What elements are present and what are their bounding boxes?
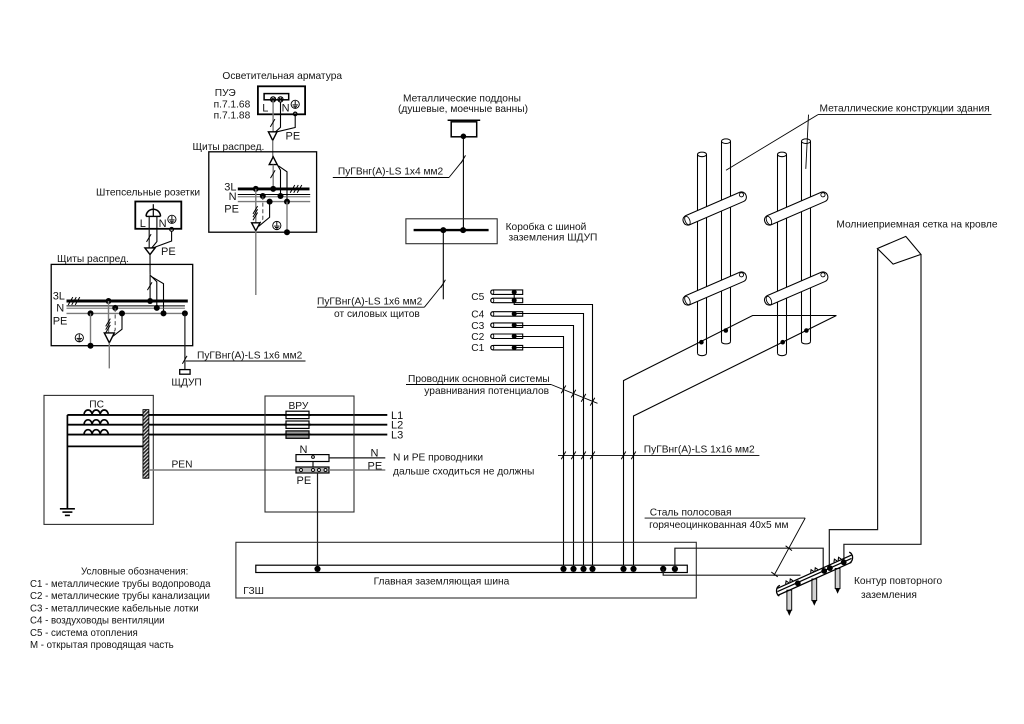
3-phase marks /// bbox=[290, 185, 302, 193]
svg-text:PE: PE bbox=[297, 475, 312, 487]
svg-text:Щиты распред.: Щиты распред. bbox=[57, 254, 129, 265]
bonding dots on pipes bbox=[699, 328, 809, 344]
PE bus bbox=[296, 467, 329, 473]
enclosure earth symbol bbox=[273, 221, 281, 229]
PE line out bbox=[329, 469, 385, 471]
horizontal pipe upper-left bbox=[682, 190, 748, 226]
conductor tick bbox=[271, 170, 276, 178]
svg-text:заземления: заземления bbox=[861, 590, 917, 601]
junction dots bbox=[440, 227, 446, 233]
svg-text:Металлические поддоны: Металлические поддоны bbox=[403, 93, 521, 104]
tick on PE wire bbox=[182, 356, 187, 364]
cable down to board bbox=[149, 255, 151, 275]
svg-text:С1 - металлические трубы водоп: С1 - металлические трубы водопровода bbox=[30, 579, 211, 590]
protective earth terminal symbol of EL1 bbox=[291, 100, 299, 108]
ground rod 3 bbox=[835, 569, 840, 594]
steel strip (3 edges) bbox=[778, 555, 852, 595]
horizontal pipe lower-left bbox=[682, 270, 748, 306]
svg-text:Сталь полосовая: Сталь полосовая bbox=[650, 508, 732, 519]
svg-text:Коробка с шиной: Коробка с шиной bbox=[506, 221, 587, 233]
terminal N of EL1 bbox=[278, 97, 283, 102]
PE stud terminal bbox=[293, 112, 297, 116]
luminaire EL1 (Осветительная арматура) bbox=[214, 71, 343, 122]
horizontal pipe upper-right bbox=[763, 190, 829, 226]
wire N branch bbox=[277, 165, 280, 196]
wire to re-grounding loop (upper) bbox=[675, 548, 823, 570]
tick bbox=[441, 280, 446, 288]
svg-text:3L: 3L bbox=[53, 290, 65, 302]
leader to pipes pair 1 bbox=[726, 115, 818, 171]
main switchboard ВРУ bbox=[265, 396, 354, 512]
legend (Условные обозначения) bbox=[30, 567, 211, 651]
wire N bbox=[152, 216, 157, 248]
building metal structures (Металлические конструкции здания) bbox=[624, 104, 998, 568]
3-phase marks /// bbox=[68, 297, 80, 305]
pipe C3 bbox=[491, 323, 523, 328]
svg-text:С4 - воздуховоды вентиляции: С4 - воздуховоды вентиляции bbox=[30, 616, 165, 627]
bonding wire from C4 bbox=[514, 314, 583, 566]
pipe C4 bbox=[491, 312, 523, 317]
svg-text:М - открытая проводящая часть: М - открытая проводящая часть bbox=[30, 640, 174, 651]
bonding wire from C3 bbox=[514, 326, 573, 566]
svg-text:ЩДУП: ЩДУП bbox=[171, 378, 201, 389]
svg-text:ПуГВнг(А)-LS 1х6 мм2: ПуГВнг(А)-LS 1х6 мм2 bbox=[317, 296, 423, 307]
fuse L2 bbox=[286, 421, 309, 428]
svg-text:п.7.1.68: п.7.1.68 bbox=[214, 99, 251, 110]
bus 3L bbox=[67, 300, 188, 303]
cable head triangle (down) bbox=[252, 223, 260, 231]
connection dots on strip bbox=[795, 559, 847, 586]
conductor tick bbox=[147, 234, 152, 242]
svg-text:L: L bbox=[262, 103, 268, 115]
star point vertical bbox=[66, 415, 68, 509]
bond dot on enclosure bbox=[88, 343, 94, 349]
svg-text:С1: С1 bbox=[471, 343, 484, 354]
re-grounding loop (Контур повторного заземления) bbox=[645, 508, 943, 616]
PE bond wire to enclosure bbox=[286, 202, 288, 233]
lightning mesh down-conductor column bbox=[829, 236, 921, 567]
cable head triangle (down) bbox=[104, 333, 114, 343]
svg-text:Молниеприемная сетка на кровле: Молниеприемная сетка на кровле bbox=[836, 219, 997, 230]
PE bond wire left bbox=[90, 313, 92, 345]
svg-text:N: N bbox=[159, 218, 167, 230]
ground symbol bbox=[60, 509, 75, 516]
wire N branch bbox=[150, 275, 156, 308]
svg-text:ПуГВнг(А)-LS 1х6 мм2: ПуГВнг(А)-LS 1х6 мм2 bbox=[197, 351, 303, 362]
socket symbol (dome) bbox=[146, 209, 160, 216]
leader bbox=[424, 285, 442, 308]
bus N (double line) bbox=[238, 194, 310, 196]
svg-text:С5 - система отопления: С5 - система отопления bbox=[30, 628, 138, 639]
svg-text:Главная заземляющая шина: Главная заземляющая шина bbox=[374, 576, 510, 587]
wire L bbox=[148, 216, 150, 248]
svg-text:С5: С5 bbox=[471, 292, 484, 303]
N bus bbox=[284, 414, 311, 416]
terminal L of EL1 bbox=[271, 97, 276, 102]
outgoing PE wire bbox=[112, 313, 122, 337]
bus bar in box bbox=[414, 229, 489, 231]
wire PE bbox=[153, 231, 172, 248]
svg-text:С3 - металлические кабельные л: С3 - металлические кабельные лотки bbox=[30, 603, 199, 614]
ShDUP terminal box bbox=[180, 370, 190, 375]
svg-text:N: N bbox=[229, 191, 237, 203]
cable head triangle (down) bbox=[268, 132, 277, 141]
junction dots bbox=[253, 186, 290, 205]
vertical pipe 1 bbox=[698, 152, 707, 356]
svg-text:N: N bbox=[371, 447, 379, 459]
strip end cap left bbox=[777, 585, 780, 596]
line L2 bbox=[67, 424, 387, 426]
svg-text:N: N bbox=[56, 303, 64, 315]
conductor count tick bbox=[270, 119, 275, 127]
group ticks bbox=[253, 206, 258, 220]
svg-text:п.7.1.88: п.7.1.88 bbox=[214, 111, 251, 122]
svg-text:N и PE проводники: N и PE проводники bbox=[393, 452, 483, 463]
cable head triangle (down) bbox=[145, 248, 155, 255]
horizontal pipe lower-right bbox=[763, 270, 829, 306]
PEN conductor bbox=[149, 469, 296, 471]
PE stud terminal bbox=[170, 228, 174, 232]
svg-text:Контур повторного: Контур повторного bbox=[854, 576, 943, 587]
junction dots bbox=[88, 298, 188, 316]
tick bbox=[461, 155, 466, 163]
bus N (double line) bbox=[67, 305, 185, 307]
PE wire down to GZSH bbox=[317, 473, 319, 565]
N-PE link bbox=[312, 462, 314, 468]
busbar (hatched) bbox=[143, 410, 149, 479]
svg-text:PEN: PEN bbox=[172, 460, 193, 471]
cable stub down bbox=[108, 343, 110, 369]
svg-text:ПУЭ: ПУЭ bbox=[215, 88, 236, 99]
bonded services C1-C5 pipe symbols bbox=[406, 290, 759, 566]
svg-text:N: N bbox=[282, 103, 290, 115]
wire down from box bbox=[442, 230, 444, 299]
outgoing PE wire bbox=[259, 202, 270, 227]
svg-text:ПуГВнг(А)-LS 1x16 мм2: ПуГВнг(А)-LS 1x16 мм2 bbox=[644, 444, 755, 455]
svg-text:PE: PE bbox=[368, 461, 383, 473]
leader to pipes pair 2 bbox=[806, 115, 809, 169]
connection dots bbox=[512, 290, 517, 351]
svg-text:PE: PE bbox=[161, 246, 176, 258]
outgoing L wire bbox=[108, 301, 110, 333]
svg-text:ГЗШ: ГЗШ bbox=[243, 586, 264, 597]
pipe C5 upper bbox=[491, 290, 523, 295]
outgoing N wire (dashed) bbox=[257, 196, 263, 226]
node on tub bbox=[461, 134, 467, 140]
bonding wire from C5 bbox=[514, 300, 592, 565]
svg-text:PE: PE bbox=[224, 204, 239, 216]
vertical pipe 2 bbox=[722, 139, 731, 344]
svg-text:дальше сходиться не должны: дальше сходиться не должны bbox=[393, 467, 534, 478]
bus PE bbox=[67, 312, 187, 314]
pipe C1 bbox=[491, 345, 523, 350]
svg-text:Штепсельные розетки: Штепсельные розетки bbox=[96, 187, 200, 198]
svg-text:С3: С3 bbox=[471, 321, 484, 332]
outgoing N wire (dashed) bbox=[111, 308, 115, 336]
wire N from EL1 bbox=[276, 102, 281, 132]
bond dot bbox=[284, 229, 290, 235]
roof bonding wire 1 bbox=[624, 316, 837, 566]
svg-text:ВРУ: ВРУ bbox=[289, 401, 309, 412]
svg-text:С2 - металлические трубы канал: С2 - металлические трубы канализации bbox=[30, 591, 210, 602]
svg-text:Осветительная арматура: Осветительная арматура bbox=[222, 71, 342, 82]
svg-text:Металлические конструкции здан: Металлические конструкции здания bbox=[820, 104, 990, 115]
wire PE branch bbox=[151, 276, 163, 313]
svg-text:PE: PE bbox=[286, 131, 301, 143]
transformer winding L1 bbox=[84, 410, 108, 415]
wire tub to box bbox=[462, 136, 464, 230]
svg-text:С4: С4 bbox=[471, 310, 484, 321]
pipe C5 lower bbox=[491, 298, 523, 303]
earth symbol of socket bbox=[168, 215, 176, 223]
svg-text:заземления ШДУП: заземления ШДУП bbox=[509, 232, 598, 243]
conductor tick bbox=[147, 282, 152, 290]
earthing bus box (Коробка с шиной заземления ШДУП) bbox=[406, 219, 497, 244]
leader across bonding wires bbox=[551, 385, 598, 404]
fuse L3 bbox=[286, 431, 309, 438]
svg-text:PE: PE bbox=[53, 316, 68, 328]
svg-text:Условные обозначения:: Условные обозначения: bbox=[81, 567, 188, 578]
svg-text:ПуГВнг(А)-LS 1х4 мм2: ПуГВнг(А)-LS 1х4 мм2 bbox=[338, 166, 444, 177]
svg-text:С2: С2 bbox=[471, 332, 484, 343]
bus PE bbox=[238, 201, 310, 203]
bonding wire from C1 bbox=[514, 347, 563, 349]
PE wire to ShDUP box bbox=[184, 313, 186, 369]
bonding wire from C2 bbox=[514, 337, 563, 566]
substation ПС bbox=[44, 395, 153, 524]
wire L down to 3L bus bbox=[272, 165, 274, 189]
wire PE branch bbox=[278, 166, 287, 202]
ground rod 1 bbox=[787, 590, 792, 616]
leader bbox=[449, 161, 463, 178]
wire cable down to board bbox=[272, 140, 274, 157]
pipe C2 bbox=[491, 334, 523, 339]
N line out bbox=[329, 457, 385, 459]
svg-text:(душевые, моечные ванны): (душевые, моечные ванны) bbox=[398, 104, 528, 115]
svg-text:Проводник основной системы: Проводник основной системы bbox=[408, 374, 550, 385]
leader down to strip bbox=[774, 518, 805, 576]
svg-text:N: N bbox=[300, 444, 308, 456]
svg-text:L3: L3 bbox=[391, 430, 403, 442]
busbar overlay bbox=[143, 410, 149, 479]
transformer winding L3 bbox=[84, 430, 108, 435]
svg-text:от силовых щитов: от силовых щитов bbox=[334, 309, 420, 320]
wire to re-grounding loop (lower) bbox=[663, 569, 800, 575]
strip end cap right bbox=[849, 552, 852, 563]
link between C5 pipes bbox=[513, 292, 515, 300]
group ticks bbox=[106, 319, 111, 333]
bus 3L bbox=[238, 187, 310, 190]
wire L from EL1 down bbox=[272, 102, 274, 132]
vertical pipe 4 bbox=[802, 139, 811, 344]
vertical pipe 3 bbox=[778, 152, 787, 356]
outgoing L wire bbox=[255, 189, 257, 223]
line L3 bbox=[67, 434, 387, 436]
svg-text:горячеоцинкованная 40х5 мм: горячеоцинкованная 40х5 мм bbox=[649, 520, 788, 531]
wire PE from EL1 bbox=[277, 116, 295, 132]
svg-text:ПС: ПС bbox=[89, 399, 104, 410]
roof bonding wire 2 bbox=[634, 316, 837, 566]
ground rod 2 bbox=[812, 579, 817, 606]
fuse L1 bbox=[286, 411, 309, 418]
incoming cable triangle (up) bbox=[269, 157, 277, 165]
svg-text:L: L bbox=[140, 218, 146, 230]
neutral line inside ПС bbox=[67, 445, 143, 447]
rod clamps bbox=[785, 557, 842, 584]
svg-text:уравнивания потенциалов: уравнивания потенциалов bbox=[424, 386, 549, 397]
transformer winding L2 bbox=[84, 420, 108, 425]
junction dots on bar bbox=[314, 566, 678, 572]
wire L into 3L bus bbox=[149, 275, 151, 301]
main earthing busbar ГЗШ bbox=[236, 542, 823, 598]
line L1 bbox=[67, 414, 387, 416]
leader underline bbox=[186, 360, 306, 362]
cable stub down bbox=[255, 231, 257, 295]
enclosure earth symbol bbox=[75, 334, 83, 342]
